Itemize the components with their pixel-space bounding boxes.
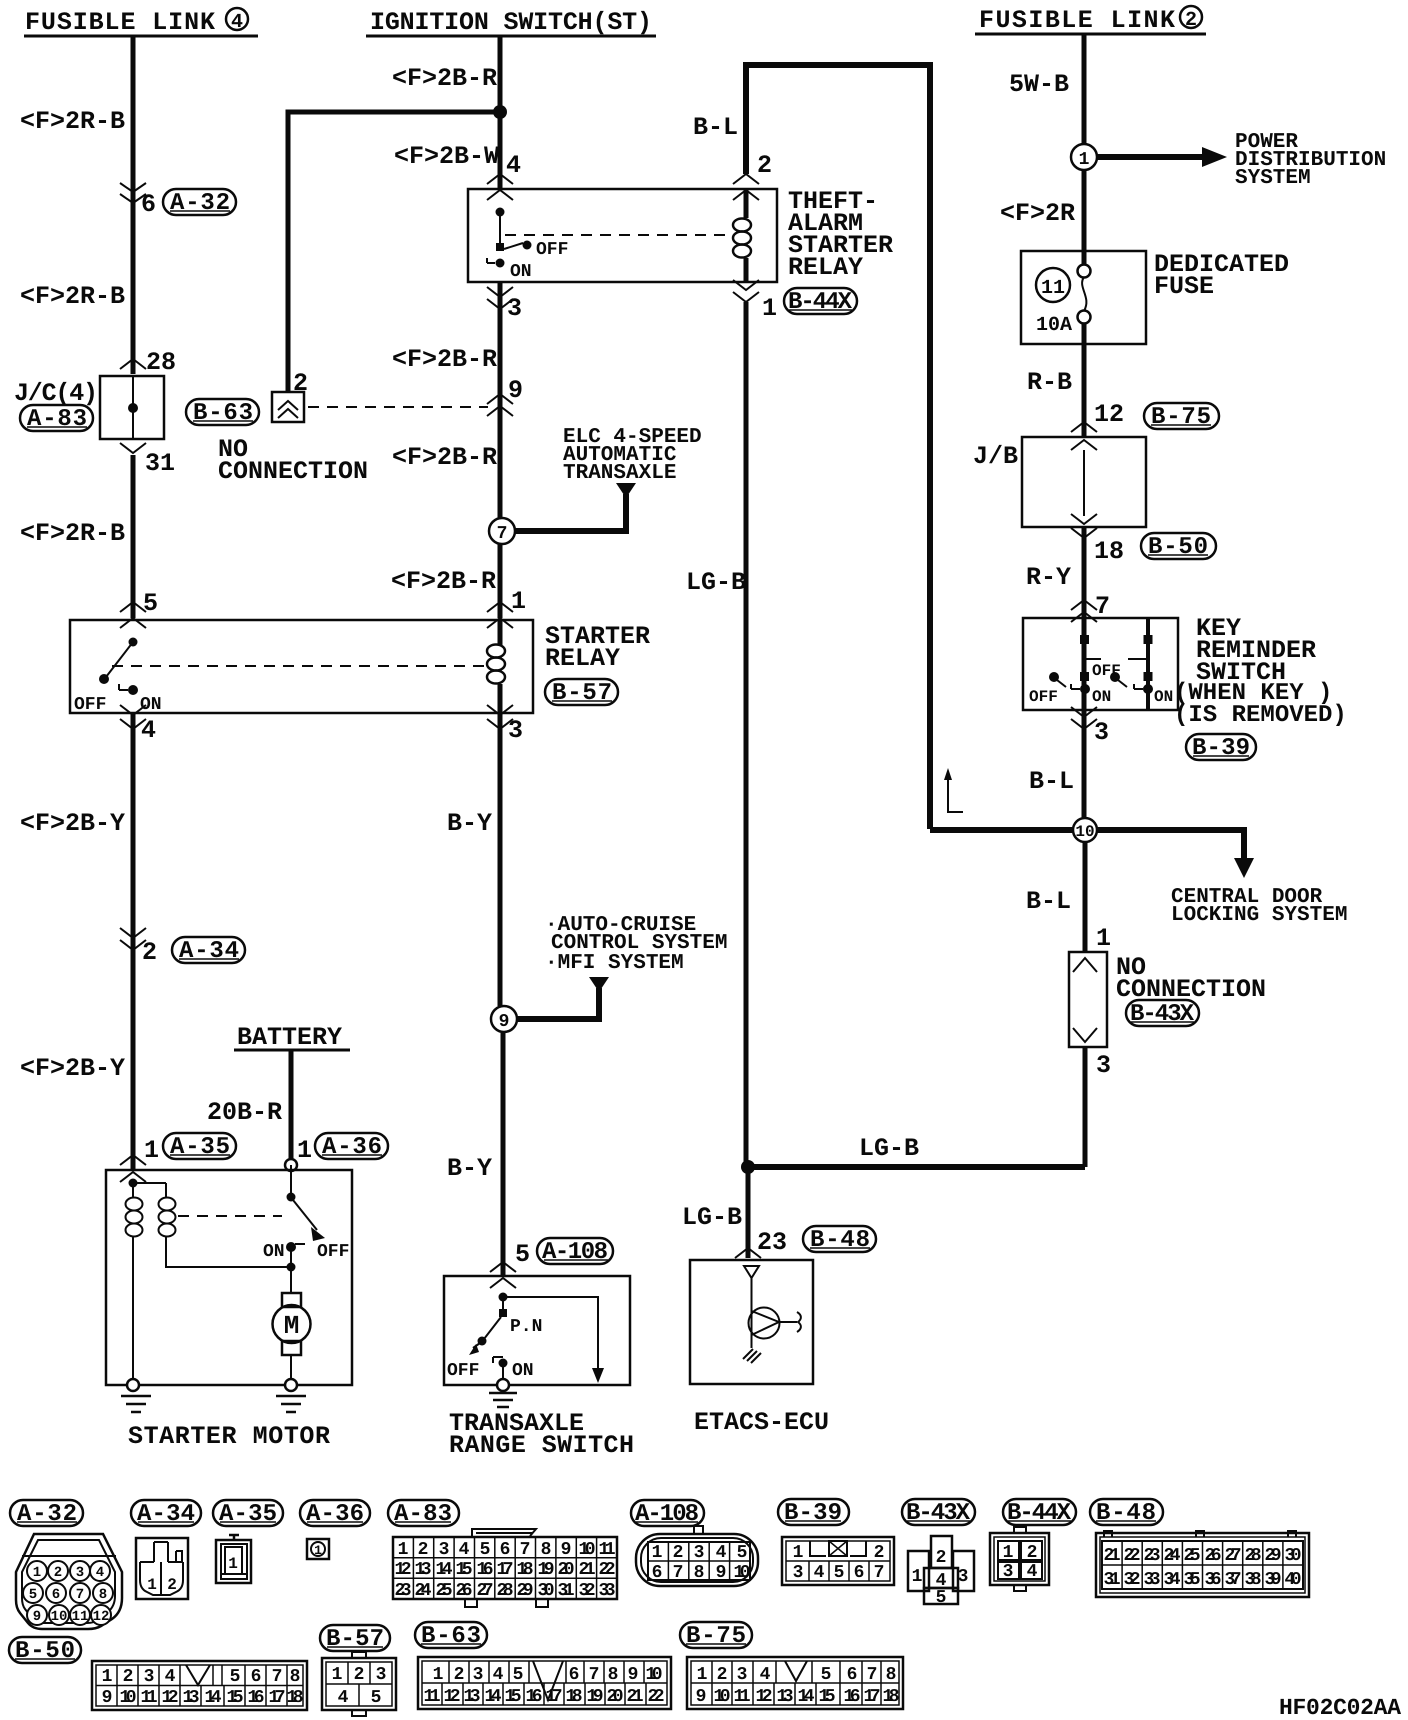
svg-text:8: 8 bbox=[694, 1563, 705, 1583]
ETACS-ECU box bbox=[690, 1260, 813, 1384]
svg-text:5: 5 bbox=[737, 1543, 748, 1563]
svg-text:7: 7 bbox=[673, 1563, 684, 1583]
connector badge A-83 (table) bbox=[388, 1500, 459, 1528]
svg-text:25: 25 bbox=[1184, 1546, 1201, 1566]
connector badge B-44X (table) bbox=[1003, 1499, 1076, 1527]
connector badge B-75 bbox=[1144, 403, 1219, 431]
svg-text:21: 21 bbox=[1104, 1546, 1121, 1566]
svg-text:12: 12 bbox=[395, 1560, 412, 1580]
svg-text:3: 3 bbox=[376, 1665, 387, 1685]
svg-text:ON: ON bbox=[1092, 688, 1111, 706]
svg-text:11: 11 bbox=[424, 1687, 441, 1707]
svg-text:4: 4 bbox=[493, 1665, 504, 1685]
junction block J/B box bbox=[1022, 437, 1146, 527]
svg-text:14: 14 bbox=[205, 1688, 222, 1708]
svg-text:B-75: B-75 bbox=[1151, 404, 1211, 431]
svg-text:3: 3 bbox=[76, 1565, 84, 1581]
svg-text:2: 2 bbox=[1185, 9, 1197, 32]
svg-text:<F>2B-R: <F>2B-R bbox=[392, 443, 497, 472]
svg-text:28: 28 bbox=[1245, 1546, 1262, 1566]
svg-text:B-57: B-57 bbox=[552, 680, 612, 707]
transistor bbox=[749, 1308, 801, 1339]
svg-text:2: 2 bbox=[1027, 1543, 1038, 1563]
dashed link B-63 to ignition wire bbox=[308, 406, 488, 408]
svg-text:4: 4 bbox=[96, 1565, 104, 1581]
wire LG-B to ETACS bbox=[746, 1167, 751, 1258]
connector pin 9 chevrons bbox=[487, 394, 513, 416]
ground terminal circle bbox=[497, 1379, 509, 1391]
svg-text:A-108: A-108 bbox=[542, 1239, 608, 1266]
svg-text:LOCKING SYSTEM: LOCKING SYSTEM bbox=[1171, 904, 1347, 927]
svg-text:18: 18 bbox=[1094, 537, 1124, 566]
svg-text:13: 13 bbox=[415, 1560, 432, 1580]
svg-text:2: 2 bbox=[454, 1665, 465, 1685]
svg-text:22: 22 bbox=[599, 1560, 616, 1580]
svg-text:18: 18 bbox=[287, 1688, 304, 1708]
LG-B horizontal run bbox=[746, 1164, 1085, 1170]
ON contacts bbox=[1080, 684, 1090, 694]
svg-text:6: 6 bbox=[652, 1563, 663, 1583]
connector B-63 drawing bbox=[418, 1657, 671, 1709]
svg-text:29: 29 bbox=[517, 1581, 534, 1601]
theft relay dashed link bbox=[505, 234, 730, 236]
connector badge B-50 bbox=[1141, 533, 1216, 561]
svg-text:37: 37 bbox=[1225, 1570, 1242, 1590]
svg-text:21: 21 bbox=[579, 1560, 596, 1580]
svg-text:8: 8 bbox=[608, 1665, 619, 1685]
connector A-32 pin 6 chevrons bbox=[120, 183, 146, 203]
svg-text:17: 17 bbox=[497, 1560, 514, 1580]
svg-text:32: 32 bbox=[579, 1581, 596, 1601]
svg-text:5W-B: 5W-B bbox=[1009, 70, 1069, 99]
svg-text:4: 4 bbox=[760, 1665, 771, 1685]
svg-text:1: 1 bbox=[297, 1136, 312, 1165]
svg-text:4: 4 bbox=[814, 1563, 825, 1583]
svg-text:3: 3 bbox=[1094, 718, 1109, 747]
svg-text:17: 17 bbox=[546, 1687, 563, 1707]
svg-text:1: 1 bbox=[1096, 924, 1111, 953]
wire circle10 to NC bbox=[1083, 842, 1088, 952]
svg-text:1: 1 bbox=[433, 1665, 444, 1685]
wire to ELC bbox=[514, 494, 626, 531]
junction circle 1 bbox=[1071, 144, 1097, 170]
svg-text:31: 31 bbox=[1104, 1570, 1121, 1590]
svg-text:BATTERY: BATTERY bbox=[237, 1023, 342, 1052]
svg-text:<F>2B-R: <F>2B-R bbox=[392, 64, 497, 93]
svg-text:34: 34 bbox=[1164, 1570, 1181, 1590]
arrow to ELC bbox=[616, 483, 636, 498]
svg-text:10: 10 bbox=[579, 1540, 596, 1560]
arrow to central door locking bbox=[1234, 858, 1254, 878]
svg-text:7: 7 bbox=[520, 1540, 531, 1560]
contact squares bbox=[1080, 635, 1089, 644]
starter motor pin 1 chevrons bbox=[120, 1155, 146, 1182]
svg-text:10A: 10A bbox=[1036, 314, 1072, 337]
theft relay switch bbox=[487, 208, 568, 283]
connector badge B-63 bbox=[186, 399, 259, 427]
svg-text:B-44X: B-44X bbox=[1007, 1500, 1072, 1527]
svg-text:1: 1 bbox=[228, 1555, 238, 1573]
svg-text:18: 18 bbox=[566, 1687, 583, 1707]
svg-text:2: 2 bbox=[123, 1667, 134, 1687]
theft relay pin 4 chevrons bbox=[487, 174, 513, 200]
wire starter relay to starter motor bbox=[131, 713, 136, 1170]
svg-text:A-34: A-34 bbox=[179, 938, 239, 965]
svg-text:11: 11 bbox=[72, 1609, 89, 1625]
pin terminal symbol bbox=[744, 1266, 759, 1278]
svg-text:LG-B: LG-B bbox=[686, 568, 746, 597]
chevron top bbox=[1073, 958, 1097, 972]
svg-text:J/C(4): J/C(4) bbox=[14, 379, 98, 408]
svg-text:14: 14 bbox=[485, 1687, 502, 1707]
ground symbol bbox=[489, 1393, 517, 1407]
svg-text:6: 6 bbox=[854, 1563, 865, 1583]
theft relay pin 2 chevrons bbox=[733, 174, 759, 200]
svg-text:9: 9 bbox=[508, 376, 523, 405]
svg-text:FUSIBLE LINK: FUSIBLE LINK bbox=[979, 6, 1175, 35]
svg-text:A-36: A-36 bbox=[322, 1134, 382, 1161]
svg-text:31: 31 bbox=[558, 1581, 575, 1601]
svg-text:5: 5 bbox=[936, 1588, 947, 1608]
svg-text:OFF: OFF bbox=[74, 695, 106, 715]
wire starter relay to transaxle range switch bbox=[500, 713, 503, 1276]
connector B-57 drawing bbox=[322, 1652, 396, 1716]
connector badge B-48 bbox=[803, 1226, 876, 1254]
svg-text:5: 5 bbox=[143, 589, 158, 618]
starter relay pin 1 chevrons bbox=[487, 602, 513, 628]
solenoid coil 2 bbox=[159, 1198, 176, 1237]
svg-text:13: 13 bbox=[464, 1687, 481, 1707]
svg-text:B-63: B-63 bbox=[193, 400, 253, 427]
wire to B-63 no connection bbox=[288, 112, 500, 392]
wire NC to LG-B run bbox=[1083, 1047, 1088, 1167]
svg-text:17: 17 bbox=[269, 1688, 286, 1708]
svg-text:M: M bbox=[284, 1311, 300, 1341]
chevron into J/C bbox=[120, 359, 146, 369]
switch lever 1 bbox=[1049, 672, 1059, 682]
svg-text:4: 4 bbox=[716, 1543, 727, 1563]
svg-text:4: 4 bbox=[338, 1688, 349, 1708]
connector B-44X drawing bbox=[990, 1527, 1049, 1591]
junction block J/C(4) box bbox=[100, 376, 164, 439]
svg-text:R-Y: R-Y bbox=[1026, 563, 1071, 592]
svg-text:P.N: P.N bbox=[510, 1317, 542, 1337]
starter motor box bbox=[106, 1170, 352, 1385]
connector badge A-108 bbox=[537, 1238, 613, 1266]
svg-text:12: 12 bbox=[444, 1687, 461, 1707]
wire J/B to key reminder switch bbox=[1082, 527, 1087, 618]
svg-text:HF02C02AA: HF02C02AA bbox=[1279, 1695, 1401, 1720]
svg-text:5: 5 bbox=[371, 1688, 382, 1708]
svg-text:3: 3 bbox=[958, 1567, 969, 1587]
svg-text:29: 29 bbox=[1265, 1546, 1282, 1566]
connector badge B-44X bbox=[784, 288, 857, 316]
svg-text:9: 9 bbox=[561, 1540, 572, 1560]
connector badge A-34 (table) bbox=[131, 1500, 201, 1528]
svg-text:1: 1 bbox=[793, 1543, 804, 1563]
svg-text:1: 1 bbox=[1079, 150, 1090, 170]
svg-text:5: 5 bbox=[480, 1540, 491, 1560]
svg-text:9: 9 bbox=[33, 1609, 41, 1625]
svg-text:1: 1 bbox=[697, 1665, 708, 1685]
svg-text:1: 1 bbox=[144, 1136, 159, 1165]
svg-text:<F>2B-Y: <F>2B-Y bbox=[20, 809, 125, 838]
svg-text:26: 26 bbox=[456, 1581, 473, 1601]
wire inside J/B bbox=[1083, 450, 1085, 516]
svg-text:IGNITION SWITCH(ST): IGNITION SWITCH(ST) bbox=[370, 8, 652, 37]
ground hatch bbox=[743, 1349, 761, 1363]
solenoid node dot bbox=[129, 1179, 138, 1188]
svg-text:B-50: B-50 bbox=[15, 1638, 75, 1665]
svg-text:7: 7 bbox=[874, 1563, 885, 1583]
svg-text:A-36: A-36 bbox=[306, 1501, 364, 1528]
svg-text:9: 9 bbox=[696, 1687, 707, 1707]
svg-text:A-83: A-83 bbox=[27, 406, 87, 433]
junction circle 10 bbox=[1073, 818, 1097, 842]
connector badge B-50 (table) bbox=[9, 1637, 81, 1665]
connector badge B-39 bbox=[1186, 734, 1256, 762]
connector badge A-32 (table) bbox=[10, 1500, 83, 1528]
svg-text:11: 11 bbox=[141, 1688, 158, 1708]
wire circle1 to fuse bbox=[1082, 170, 1087, 266]
svg-text:A-34: A-34 bbox=[137, 1501, 195, 1528]
svg-text:<F>2R-B: <F>2R-B bbox=[20, 519, 125, 548]
svg-text:7: 7 bbox=[497, 524, 508, 544]
svg-text:R-B: R-B bbox=[1027, 368, 1072, 397]
svg-text:FUSE: FUSE bbox=[1154, 272, 1214, 301]
svg-text:2: 2 bbox=[142, 938, 157, 967]
key reminder pin 7 chevrons bbox=[1071, 600, 1097, 622]
svg-text:19: 19 bbox=[587, 1687, 604, 1707]
svg-text:FUSIBLE LINK: FUSIBLE LINK bbox=[25, 8, 215, 37]
connector badge B-57 (table) bbox=[320, 1625, 390, 1653]
svg-text:6: 6 bbox=[500, 1540, 511, 1560]
theft relay coil bbox=[733, 189, 751, 282]
svg-text:3: 3 bbox=[508, 716, 523, 745]
svg-text:2: 2 bbox=[418, 1540, 429, 1560]
svg-text:31: 31 bbox=[145, 449, 175, 478]
svg-text:ON: ON bbox=[1154, 688, 1173, 706]
svg-text:LG-B: LG-B bbox=[859, 1134, 919, 1163]
contact squares lower bbox=[1080, 672, 1089, 681]
svg-text:23: 23 bbox=[757, 1228, 787, 1257]
svg-text:3: 3 bbox=[507, 294, 522, 323]
svg-text:OFF: OFF bbox=[317, 1242, 349, 1262]
svg-text:A-83: A-83 bbox=[394, 1501, 452, 1528]
svg-text:9: 9 bbox=[499, 1012, 510, 1032]
connector A-108 drawing bbox=[636, 1526, 758, 1586]
svg-text:ON: ON bbox=[510, 262, 532, 282]
svg-text:13: 13 bbox=[183, 1688, 200, 1708]
svg-text:B-48: B-48 bbox=[810, 1227, 870, 1254]
svg-text:SYSTEM: SYSTEM bbox=[1235, 167, 1311, 190]
wire J/C to starter relay bbox=[131, 455, 136, 618]
svg-text:30: 30 bbox=[1285, 1546, 1302, 1566]
svg-text:2: 2 bbox=[673, 1543, 684, 1563]
svg-text:A-108: A-108 bbox=[635, 1501, 699, 1528]
svg-text:B-44X: B-44X bbox=[788, 289, 853, 316]
connector B-75 drawing bbox=[687, 1657, 903, 1709]
svg-text:A-32: A-32 bbox=[170, 190, 230, 217]
svg-text:20: 20 bbox=[558, 1560, 575, 1580]
wire ignition switch bbox=[498, 36, 503, 188]
svg-text:1: 1 bbox=[33, 1565, 41, 1581]
svg-text:2: 2 bbox=[874, 1543, 885, 1563]
svg-text:4: 4 bbox=[506, 151, 521, 180]
svg-text:9: 9 bbox=[716, 1563, 727, 1583]
battery bus bar bbox=[234, 1049, 350, 1052]
svg-text:4: 4 bbox=[165, 1667, 176, 1687]
ETACS pin 23 chevron bbox=[735, 1248, 761, 1258]
relay U starter relay box B-57 bbox=[70, 620, 533, 713]
svg-text:15: 15 bbox=[227, 1688, 244, 1708]
svg-text:5: 5 bbox=[513, 1665, 524, 1685]
theft relay pin 1 chevrons bbox=[733, 280, 759, 302]
svg-text:6: 6 bbox=[847, 1665, 858, 1685]
svg-text:35: 35 bbox=[1184, 1570, 1201, 1590]
svg-text:2: 2 bbox=[293, 369, 308, 398]
svg-text:19: 19 bbox=[538, 1560, 555, 1580]
no connection box B-43X bbox=[1069, 952, 1107, 1047]
node dot bbox=[287, 1263, 296, 1272]
svg-text:6: 6 bbox=[52, 1587, 60, 1603]
connector A-34 pin 2 chevrons bbox=[120, 928, 146, 950]
starter relay pin 5 chevrons bbox=[120, 602, 146, 628]
ground symbol left bbox=[121, 1396, 151, 1412]
svg-text:16: 16 bbox=[526, 1687, 543, 1707]
svg-text:4: 4 bbox=[1027, 1562, 1038, 1582]
svg-text:5: 5 bbox=[29, 1587, 37, 1603]
svg-text:8: 8 bbox=[886, 1665, 897, 1685]
svg-text:<F>2B-R: <F>2B-R bbox=[391, 567, 496, 596]
svg-text:8: 8 bbox=[541, 1540, 552, 1560]
svg-text:B-75: B-75 bbox=[686, 1623, 746, 1650]
svg-text:12: 12 bbox=[162, 1688, 179, 1708]
connector badge A-32 bbox=[163, 189, 236, 217]
starter relay pin 3 chevrons bbox=[487, 705, 513, 729]
relay U theft-alarm starter relay box B-44X bbox=[468, 189, 777, 282]
svg-text:22: 22 bbox=[648, 1687, 665, 1707]
svg-text:OFF: OFF bbox=[536, 240, 568, 260]
svg-text:2: 2 bbox=[167, 1576, 177, 1594]
svg-text:13: 13 bbox=[777, 1687, 794, 1707]
svg-text:5: 5 bbox=[834, 1563, 845, 1583]
wire to auto-cruise bbox=[517, 988, 599, 1019]
transaxle pin 5 chevrons bbox=[490, 1262, 516, 1288]
OFF link line bbox=[1086, 658, 1148, 660]
svg-text:10: 10 bbox=[734, 1563, 751, 1583]
ground terminal circle right bbox=[285, 1379, 297, 1391]
key reminder switch box B-39 bbox=[1023, 618, 1178, 710]
svg-text:B-43X: B-43X bbox=[1130, 1001, 1195, 1028]
svg-text:18: 18 bbox=[883, 1687, 900, 1707]
svg-text:2: 2 bbox=[757, 151, 772, 180]
svg-text:5: 5 bbox=[230, 1667, 241, 1687]
terminal circle A-36 bbox=[285, 1159, 297, 1171]
svg-text:27: 27 bbox=[1225, 1546, 1242, 1566]
svg-text:10: 10 bbox=[51, 1609, 68, 1625]
svg-text:ON: ON bbox=[512, 1361, 534, 1381]
svg-text:28: 28 bbox=[497, 1581, 514, 1601]
svg-text:B-Y: B-Y bbox=[447, 1154, 492, 1183]
svg-text:10: 10 bbox=[120, 1688, 137, 1708]
svg-text:25: 25 bbox=[436, 1581, 453, 1601]
connector badge A-83 bbox=[20, 405, 93, 433]
svg-text:15: 15 bbox=[505, 1687, 522, 1707]
wire fuse to J/B bbox=[1082, 323, 1087, 437]
svg-text:11: 11 bbox=[599, 1540, 616, 1560]
connector badge A-36 (table) bbox=[300, 1500, 370, 1528]
svg-text:10: 10 bbox=[646, 1665, 663, 1685]
svg-text:12: 12 bbox=[756, 1687, 773, 1707]
connector badge B-43X bbox=[1126, 1000, 1199, 1028]
wire ignition below theft relay bbox=[498, 282, 503, 618]
svg-text:33: 33 bbox=[599, 1581, 616, 1601]
wire key reminder to circle 10 bbox=[1082, 710, 1087, 818]
svg-text:18: 18 bbox=[517, 1560, 534, 1580]
svg-text:6: 6 bbox=[569, 1665, 580, 1685]
inner loop wire with arrow bbox=[503, 1297, 598, 1368]
svg-text:1: 1 bbox=[652, 1543, 663, 1563]
fuse number circle 11 bbox=[1036, 268, 1070, 302]
connector badge B-57 bbox=[545, 679, 618, 707]
wire fusible link 2 bbox=[1082, 34, 1087, 144]
solenoid link wire bbox=[133, 1183, 166, 1197]
svg-text:3: 3 bbox=[144, 1667, 155, 1687]
ground terminal circle left bbox=[127, 1379, 139, 1391]
switch lever 2 bbox=[1110, 672, 1120, 682]
connector B-48 drawing bbox=[1096, 1531, 1309, 1597]
svg-text:33: 33 bbox=[1144, 1570, 1161, 1590]
node dot bbox=[499, 1293, 508, 1302]
svg-text:17: 17 bbox=[864, 1687, 881, 1707]
svg-text:1: 1 bbox=[912, 1567, 923, 1587]
svg-text:7: 7 bbox=[867, 1665, 878, 1685]
wire battery to A-36 bbox=[289, 1050, 294, 1158]
svg-text:(IS REMOVED): (IS REMOVED) bbox=[1174, 702, 1347, 729]
wire inside bbox=[751, 1278, 753, 1348]
svg-text:40: 40 bbox=[1285, 1570, 1302, 1590]
wire switch to ground bbox=[502, 1363, 504, 1380]
starter relay switch bbox=[74, 638, 162, 716]
theft relay pin 3 chevrons bbox=[487, 287, 513, 309]
svg-text:B-50: B-50 bbox=[1148, 534, 1208, 561]
svg-text:1: 1 bbox=[1003, 1543, 1014, 1563]
svg-text:<F>2R: <F>2R bbox=[1000, 199, 1075, 228]
svg-text:1: 1 bbox=[147, 1576, 157, 1594]
svg-text:B-39: B-39 bbox=[1192, 735, 1250, 762]
svg-text:7: 7 bbox=[589, 1665, 600, 1685]
svg-text:16: 16 bbox=[477, 1560, 494, 1580]
svg-text:1: 1 bbox=[314, 1543, 322, 1558]
heading FUSIBLE LINK 4 bbox=[24, 8, 258, 37]
svg-text:36: 36 bbox=[1205, 1570, 1222, 1590]
switch to motor wire bbox=[290, 1165, 292, 1293]
J/B pin 12 chevron bbox=[1071, 422, 1097, 450]
svg-text:12: 12 bbox=[93, 1609, 110, 1625]
svg-text:RELAY: RELAY bbox=[545, 644, 620, 673]
wire B-L loop bbox=[746, 65, 930, 829]
connector badge B-39 (table) bbox=[778, 1499, 849, 1527]
connector A-35 drawing bbox=[216, 1535, 251, 1583]
svg-text:8: 8 bbox=[99, 1587, 107, 1603]
starter relay coil bbox=[487, 620, 505, 713]
coil 1 wire to ground bbox=[132, 1237, 134, 1379]
svg-text:21: 21 bbox=[627, 1687, 644, 1707]
svg-text:2: 2 bbox=[54, 1565, 62, 1581]
svg-text:20: 20 bbox=[607, 1687, 624, 1707]
continuation arrow symbol bbox=[948, 780, 963, 812]
